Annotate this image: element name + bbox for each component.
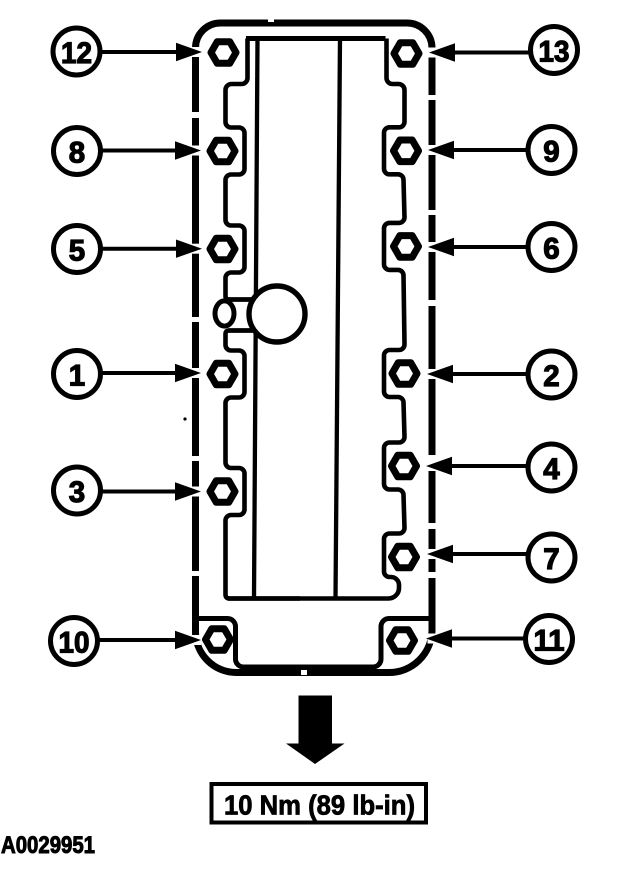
svg-text:3: 3	[69, 476, 85, 509]
svg-text:A0029951: A0029951	[1, 832, 95, 859]
svg-text:8: 8	[69, 137, 85, 170]
svg-text:2: 2	[543, 360, 559, 393]
svg-text:13: 13	[539, 36, 570, 69]
svg-text:9: 9	[543, 136, 559, 169]
svg-text:11: 11	[534, 625, 565, 658]
svg-text:10 Nm (89 lb-in): 10 Nm (89 lb-in)	[224, 790, 415, 821]
svg-text:4: 4	[543, 453, 560, 486]
svg-text:10: 10	[59, 627, 90, 660]
svg-text:1: 1	[69, 360, 85, 393]
svg-text:5: 5	[69, 235, 85, 268]
svg-text:12: 12	[61, 37, 92, 70]
svg-text:7: 7	[543, 543, 559, 576]
svg-text:6: 6	[543, 233, 559, 266]
